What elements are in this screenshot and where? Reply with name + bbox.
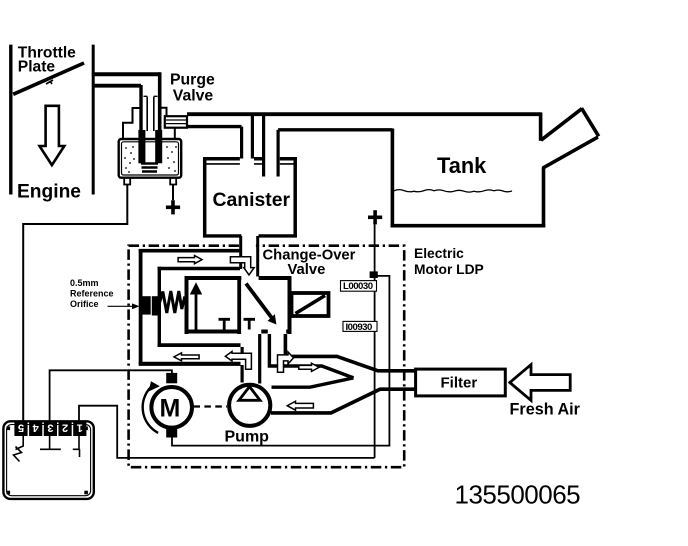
svg-text:Valve: Valve bbox=[173, 88, 214, 105]
svg-text:Pump: Pump bbox=[225, 428, 270, 445]
svg-text:135500065: 135500065 bbox=[455, 480, 581, 510]
svg-text:Change-Over: Change-Over bbox=[263, 247, 356, 263]
svg-text:2: 2 bbox=[62, 421, 68, 433]
svg-text:Plate: Plate bbox=[18, 59, 56, 76]
svg-text:5: 5 bbox=[18, 421, 24, 433]
svg-text:Electric: Electric bbox=[414, 246, 464, 261]
svg-text:Reference: Reference bbox=[70, 288, 114, 298]
svg-text:Orifice: Orifice bbox=[70, 299, 99, 309]
svg-text:Engine: Engine bbox=[17, 181, 81, 202]
svg-text:L00030: L00030 bbox=[343, 281, 373, 292]
svg-text:I00930: I00930 bbox=[346, 322, 373, 333]
svg-text:0.5mm: 0.5mm bbox=[70, 278, 99, 288]
svg-text:Canister: Canister bbox=[213, 189, 291, 211]
svg-text:1: 1 bbox=[77, 421, 83, 433]
svg-text:3: 3 bbox=[47, 421, 53, 433]
svg-text:M: M bbox=[160, 395, 181, 423]
svg-text:4: 4 bbox=[32, 421, 39, 433]
svg-text:Purge: Purge bbox=[170, 71, 215, 88]
svg-text:Motor LDP: Motor LDP bbox=[414, 262, 484, 277]
svg-text:Filter: Filter bbox=[441, 375, 478, 392]
svg-text:Valve: Valve bbox=[288, 262, 326, 278]
svg-text:Tank: Tank bbox=[437, 153, 487, 178]
svg-text:Fresh Air: Fresh Air bbox=[510, 401, 581, 419]
